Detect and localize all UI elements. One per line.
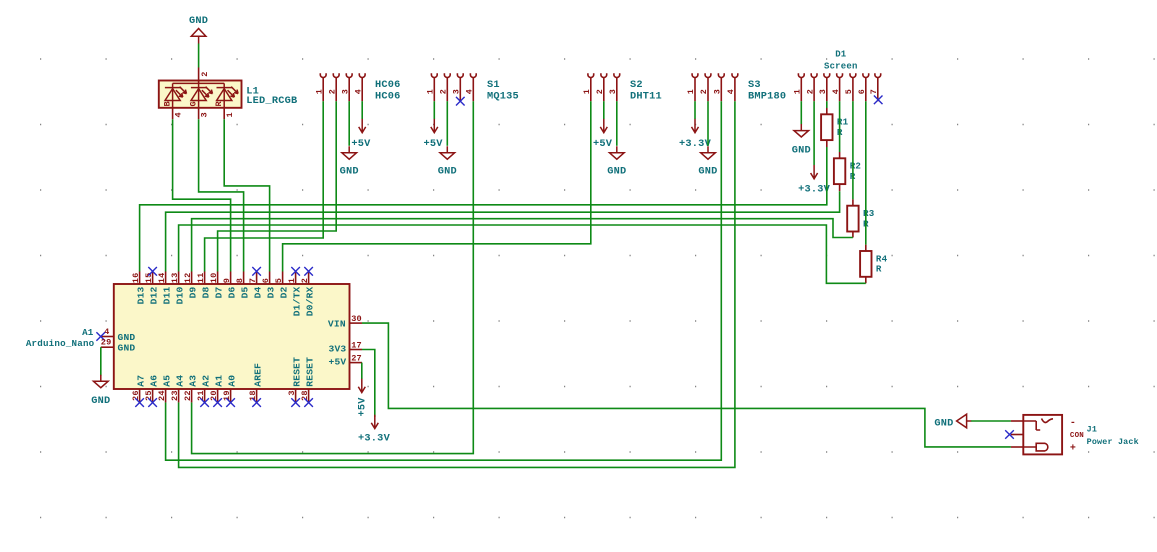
svg-text:A4: A4 [175,375,186,387]
power symbol GND (D1) [794,124,809,137]
svg-text:1: 1 [582,89,592,94]
power symbol GND (S1) [440,146,455,159]
svg-text:1: 1 [686,89,696,94]
svg-text:29: 29 [101,338,112,348]
svg-text:LED_RCGB: LED_RCGB [246,95,297,107]
L1 pin 4 stub [172,108,174,119]
L1 internal anode rail [173,82,225,84]
svg-text:5: 5 [274,278,284,283]
display connector D1 pin 7 [875,73,881,101]
sensor connector S2 pin 1 [588,73,594,101]
svg-text:A5: A5 [162,375,173,387]
svg-text:A3: A3 [188,375,199,387]
svg-text:DHT11: DHT11 [630,91,662,103]
svg-text:A2: A2 [201,375,212,387]
svg-text:GND: GND [792,145,811,157]
svg-text:D5: D5 [240,286,251,298]
svg-text:+5V: +5V [351,138,371,150]
power symbol GND (HC06) [342,146,357,159]
svg-text:D9: D9 [188,286,199,298]
wire D1 pin3 to R1 [826,101,828,108]
connector HC06 pin 3 [346,73,352,101]
sensor connector S2 pin 3 [614,73,620,101]
A1 right pin 17 (3V3) [350,349,363,351]
resistor R4 [860,251,871,277]
svg-text:D2: D2 [279,286,290,298]
A1 bottom pin 21 (A2) [204,389,206,402]
svg-text:A0: A0 [227,375,238,387]
svg-text:4: 4 [831,89,841,94]
svg-text:AREF: AREF [253,363,264,387]
A1 top pin 8 (D5) [243,272,245,285]
svg-text:1: 1 [287,278,297,283]
L1 pin 3 stub [198,108,200,119]
sensor connector S1 pin 4 [470,73,476,101]
power symbol GND (S2) [610,146,625,159]
svg-text:D3: D3 [266,286,277,298]
svg-text:4: 4 [173,112,183,117]
svg-text:12: 12 [183,272,193,283]
power symbol +3.3V (S3) [692,119,699,133]
wire D1 pin5 to R3 [852,101,854,199]
svg-text:HC06: HC06 [375,79,401,91]
resistor R3 [847,206,858,232]
svg-text:CON: CON [1070,432,1084,440]
connector J1 body [1023,415,1062,455]
power symbol +5V (HC06) [359,119,366,133]
svg-text:3: 3 [818,89,828,94]
wire S1 pin1 to +5V [433,101,435,119]
svg-text:30: 30 [351,314,362,324]
sensor connector S1 pin 2 [444,73,450,101]
A1 top pin 16 (D13) [139,272,141,285]
J1 sleeve contact symbol [1023,419,1053,431]
svg-text:R2: R2 [850,161,861,172]
svg-text:+5V: +5V [329,357,347,368]
wire D1 pin4 to R2 [839,101,841,152]
display connector D1 pin 2 [811,73,817,101]
wire S3 pin1 to +3.3V [694,101,696,119]
svg-text:4: 4 [465,89,475,94]
wire R1 to A1 pin16 (D13) [140,147,827,272]
svg-text:R: R [214,101,224,107]
svg-text:G: G [189,101,199,106]
svg-text:10: 10 [209,272,219,283]
svg-text:+3.3V: +3.3V [798,183,831,195]
A1 top pin 7 (D4) [256,272,258,285]
svg-text:-: - [1070,418,1076,429]
wire D1 pin1 to GND [800,101,802,124]
wire VIN to J1 plus [362,323,1011,447]
svg-text:13: 13 [170,272,180,283]
LED B (L1) [165,87,187,101]
power symbol GND (top of L1) [191,29,206,44]
svg-text:VIN: VIN [328,318,346,329]
svg-text:J1: J1 [1087,424,1097,434]
microcontroller A1 body [114,284,350,389]
A1 top pin 5 (D2) [282,272,284,285]
wire S2 pin3 to GND [616,101,618,146]
sensor connector S3 pin 4 [732,73,738,101]
svg-text:16: 16 [131,272,141,283]
wire D1 pin2 to +3.3V [813,101,815,165]
svg-text:8: 8 [235,278,245,283]
svg-text:D8: D8 [201,286,212,298]
A1 top pin 15 (D12) [152,272,154,285]
svg-text:11: 11 [196,272,206,283]
svg-text:Power Jack: Power Jack [1087,437,1139,447]
svg-text:D12: D12 [149,286,160,304]
power symbol +5V (S2) [600,119,607,133]
svg-text:BMP180: BMP180 [748,91,786,103]
svg-text:3: 3 [340,89,350,94]
wire HC06 pin3 to GND [348,101,350,146]
svg-text:+5V: +5V [357,397,369,417]
svg-text:23: 23 [170,390,180,401]
power symbol GND (S3) [701,146,716,159]
R3 bottom pin [852,232,854,238]
svg-text:D0/RX: D0/RX [305,286,316,316]
svg-text:D7: D7 [214,286,225,298]
wire R3 to A1 pin12 (D9) [192,219,853,272]
wire L1 pin3 to A1 pin8 (D5) [199,119,244,271]
wire L1 pin4 to A1 pin9 (D6) [173,119,231,271]
svg-text:RESET: RESET [292,357,303,387]
svg-text:A1: A1 [82,327,94,338]
power symbol +3.3V (D1) [811,165,818,179]
svg-text:3: 3 [199,112,209,117]
sensor connector S3 pin 2 [705,73,711,101]
A1 bottom pin 26 (A7) [139,389,141,402]
sensor connector S1 pin 3 [457,73,463,101]
svg-text:D1: D1 [835,50,847,60]
svg-text:4: 4 [104,327,109,337]
svg-text:4: 4 [353,89,363,94]
svg-text:14: 14 [157,272,167,283]
svg-text:1: 1 [225,112,235,117]
display connector D1 pin 5 [850,73,856,101]
svg-text:5: 5 [844,89,854,94]
svg-text:3: 3 [713,89,723,94]
A1 top pin 1 (D1/TX) [295,272,297,285]
A1 top pin 6 (D3) [269,272,271,285]
A1 left pin 29 (GND) [101,346,114,348]
A1 bottom pin 22 (A3) [191,389,193,402]
J1 plus pin [1011,446,1023,448]
svg-text:A1: A1 [214,375,225,387]
A1 top pin 9 (D6) [230,272,232,285]
svg-text:+3.3V: +3.3V [679,138,712,150]
svg-text:3: 3 [452,89,462,94]
wire D1 pin6 to R4 [865,101,867,245]
svg-text:A7: A7 [136,375,147,387]
A1 bottom pin 20 (A1) [217,389,219,402]
L1 pin 2 (top) [198,68,200,84]
L1 pin 1 stub [223,108,225,119]
svg-text:3: 3 [608,89,618,94]
wire S2 pin1 to A1 pin5 (D2) [283,101,591,271]
svg-text:D13: D13 [136,286,147,304]
wire HC06 pin1 to A1 pin11 (D8) [205,101,324,271]
svg-text:Screen: Screen [824,61,858,71]
power symbol +5V (S1) [431,119,438,133]
wire S1 pin4 to A1 pin22 (A3) [192,101,474,453]
power symbol GND (A1 pin29) [94,375,109,388]
J1 minus pin [1011,420,1023,422]
wire 3V3 to +3.3V [362,350,375,418]
svg-text:S2: S2 [630,79,643,91]
svg-text:D1/TX: D1/TX [292,286,303,316]
svg-text:22: 22 [183,390,193,401]
wire J1 minus to GND [971,420,1011,422]
no-connect flag S1 pin3 [456,97,465,106]
svg-text:3: 3 [287,390,297,395]
A1 top pin 12 (D9) [191,272,193,285]
connector HC06 pin 4 [359,73,365,101]
J1 tip contact symbol [1023,443,1048,451]
power symbol +5V (pin27) [358,379,365,393]
svg-text:D11: D11 [162,286,173,304]
power symbol +3.3V (3V3 rail) [371,415,378,429]
A1 bottom pin 18 (AREF) [256,389,258,402]
R4 bottom pin [865,277,867,284]
wire GND to L1 pin 2 [198,44,200,68]
R2 bottom pin [839,184,841,191]
svg-text:2: 2 [595,89,605,94]
wire HC06 pin2 to A1 pin10 (D7) [218,101,337,271]
no-connect flag J1 con [1005,430,1014,439]
connector HC06 pin 2 [333,73,339,101]
svg-text:HC06: HC06 [375,91,401,103]
connector HC06 pin 1 [320,73,326,101]
svg-text:6: 6 [261,278,271,283]
sensor connector S3 pin 1 [692,73,698,101]
svg-text:1: 1 [314,89,324,94]
svg-text:1: 1 [426,89,436,94]
svg-text:R1: R1 [837,117,849,128]
svg-text:7: 7 [248,278,258,283]
svg-text:2: 2 [699,89,709,94]
LED module L1 body [159,81,242,108]
R1 bottom pin [826,140,828,147]
LED G (L1) [191,87,213,101]
svg-text:S3: S3 [748,79,761,91]
A1 right pin 27 (+5V) [350,362,363,364]
svg-text:D4: D4 [253,286,264,298]
svg-text:R: R [876,264,882,275]
wire S3 pin2 to GND [707,101,709,146]
svg-text:+3.3V: +3.3V [358,433,391,445]
resistor R1 [821,114,832,140]
svg-text:3V3: 3V3 [329,344,347,355]
wire +5V pin27 down [361,363,363,379]
A1 bottom pin 23 (A4) [178,389,180,402]
svg-text:+5V: +5V [593,138,613,150]
svg-text:GND: GND [91,395,110,407]
svg-text:GND: GND [607,165,626,177]
svg-text:GND: GND [438,165,457,177]
svg-text:1: 1 [793,89,803,94]
svg-text:S1: S1 [487,79,500,91]
svg-text:2: 2 [300,278,310,283]
svg-text:17: 17 [351,340,362,350]
svg-text:B: B [163,101,173,106]
wire S2 pin2 to +5V [603,101,605,119]
svg-text:+5V: +5V [424,138,444,150]
svg-text:2: 2 [200,71,210,76]
svg-text:Arduino_Nano: Arduino_Nano [26,338,95,349]
A1 left pin 4 (GND) with no-connect [101,336,114,338]
svg-text:7: 7 [869,89,879,94]
A1 top pin 2 (D0/RX) [308,272,310,285]
svg-text:+: + [1070,444,1076,455]
A1 bottom pin 24 (A5) [165,389,167,402]
svg-text:GND: GND [118,343,136,354]
svg-text:GND: GND [189,15,208,27]
svg-text:27: 27 [351,354,362,364]
A1 top pin 14 (D11) [165,272,167,285]
svg-text:D10: D10 [175,286,186,304]
display connector D1 pin 4 [837,73,843,101]
display connector D1 pin 3 [824,73,830,101]
svg-text:RESET: RESET [305,357,316,387]
wire HC06 pin4 to +5V [361,101,363,119]
svg-text:2: 2 [439,89,449,94]
resistor R2 [834,158,845,184]
no-connect flag D1 pin7 [874,96,883,105]
display connector D1 pin 1 [798,73,804,101]
svg-text:R3: R3 [863,208,875,219]
A1 bottom pin 25 (A6) [152,389,154,402]
sensor connector S2 pin 2 [601,73,607,101]
svg-text:GND: GND [340,165,359,177]
display connector D1 pin 6 [863,73,869,101]
A1 top pin 10 (D7) [217,272,219,285]
svg-text:R4: R4 [876,253,888,264]
svg-text:6: 6 [857,89,867,94]
wire S3 pin4 to A1 pin23 (A4) [179,101,735,467]
sensor connector S3 pin 3 [718,73,724,101]
wire L1 pin1 to A1 pin6 (D3) [224,119,269,271]
svg-text:D6: D6 [227,286,238,298]
svg-text:MQ135: MQ135 [487,91,519,103]
svg-text:9: 9 [222,278,232,283]
A1 top pin 11 (D8) [204,272,206,285]
LED R (L1) [217,87,239,101]
svg-text:GND: GND [934,417,953,429]
svg-text:24: 24 [157,390,167,401]
wire S1 pin2 to GND [446,101,448,146]
svg-text:GND: GND [118,332,136,343]
A1 right pin 30 (VIN) [350,322,363,324]
wire R4 to A1 pin13 (D10) [179,225,866,283]
sensor connector S1 pin 1 [431,73,437,101]
A1 bottom pin 3 (RESET) [295,389,297,402]
svg-text:GND: GND [698,165,717,177]
wire A1 pin29 to GND [100,347,102,376]
power symbol GND (J1) [957,414,972,428]
A1 bottom pin 28 (RESET) [308,389,310,402]
svg-text:2: 2 [805,89,815,94]
wire S3 pin3 to A1 pin24 (A5) [166,101,722,460]
A1 bottom pin 19 (A0) [230,389,232,402]
J1 con pin [1011,434,1023,436]
svg-text:2: 2 [327,89,337,94]
svg-text:4: 4 [726,89,736,94]
wire R2 to A1 pin14 (D11) [166,191,840,271]
A1 top pin 13 (D10) [178,272,180,285]
svg-text:A6: A6 [149,375,160,387]
